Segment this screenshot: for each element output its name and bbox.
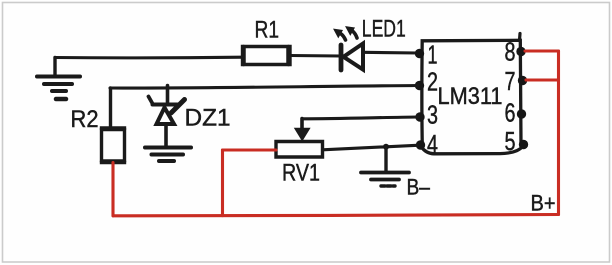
svg-text:R1: R1 — [255, 17, 280, 44]
svg-text:RV1: RV1 — [282, 160, 320, 187]
wire LED to pin 1 — [363, 51, 418, 55]
resistor R2 — [102, 88, 125, 163]
ground (under DZ1) — [145, 148, 191, 162]
wire R1 to LED — [290, 54, 341, 58]
node pin3 — [415, 112, 424, 121]
svg-text:DZ1: DZ1 — [185, 105, 231, 132]
wire pin8 to B+ rail — [525, 49, 559, 52]
wire B+ right rail — [557, 51, 560, 215]
svg-text:5: 5 — [505, 126, 516, 156]
node pin7 — [518, 76, 527, 85]
op-amp U1 LM311 box — [421, 34, 523, 154]
svg-text:3: 3 — [427, 100, 438, 130]
node pin2 — [415, 81, 424, 90]
wire pin3 to RV1 wiper — [302, 117, 418, 119]
svg-text:8: 8 — [505, 37, 516, 67]
svg-text:1: 1 — [428, 40, 438, 70]
LED LED1 — [334, 27, 363, 70]
wire B+ leg to R2 — [111, 163, 114, 216]
wire to RV1 left terminal — [223, 148, 277, 151]
svg-text:7: 7 — [505, 66, 516, 96]
svg-text:B–: B– — [407, 174, 431, 199]
node pin8 — [516, 47, 525, 56]
zener diode DZ1 — [149, 86, 185, 147]
wire B+ leg to RV1 — [221, 150, 224, 216]
node pin4 — [416, 140, 425, 149]
ground (top-left) — [37, 58, 80, 100]
svg-text:4: 4 — [427, 129, 438, 159]
node pin6 — [517, 109, 526, 118]
potentiometer RV1 — [276, 119, 323, 158]
ground B- — [361, 147, 409, 186]
wire pin2 to R2/DZ1 rail — [110, 86, 418, 89]
node pin1 — [415, 49, 424, 58]
red positive supply wiring — [113, 51, 559, 216]
wire RV1 to pin4 — [323, 145, 418, 150]
wire pin7 to B+ rail — [526, 78, 559, 81]
node tee to B- ground — [383, 144, 389, 150]
node pin5 — [519, 140, 528, 149]
wire ground to R1 — [55, 56, 242, 60]
svg-text:LED1: LED1 — [362, 16, 406, 43]
svg-text:B+: B+ — [531, 191, 556, 216]
svg-text:2: 2 — [427, 67, 438, 97]
svg-text:LM311: LM311 — [438, 83, 503, 110]
svg-text:R2: R2 — [71, 106, 99, 133]
resistor R1 — [243, 47, 291, 65]
wire B+ bottom rail — [113, 215, 559, 216]
svg-text:6: 6 — [505, 98, 516, 128]
